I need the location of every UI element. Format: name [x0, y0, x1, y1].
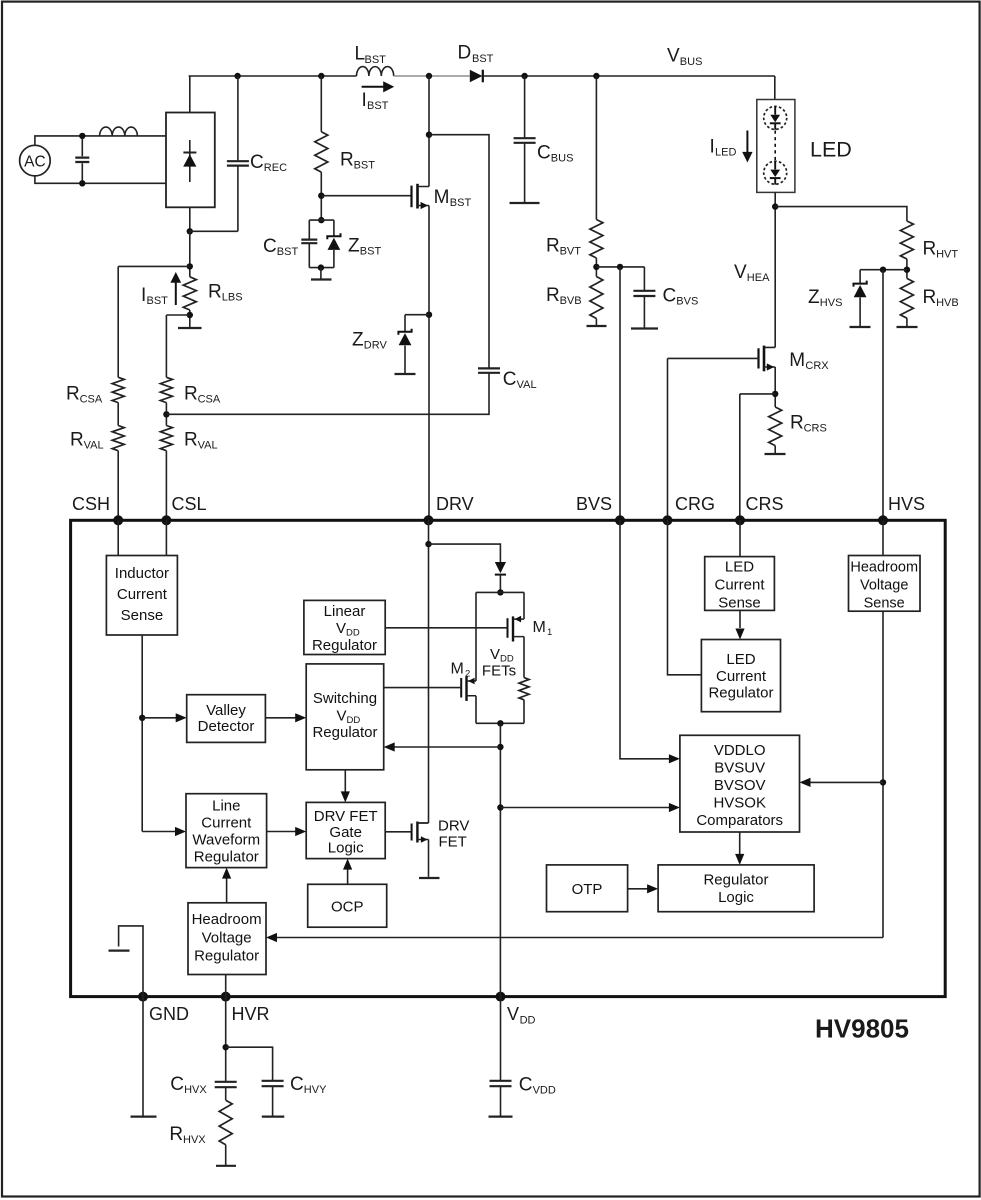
svg-text:LED: LED: [715, 147, 736, 159]
svg-text:C: C: [170, 1074, 184, 1095]
wire CSH pin to sense box: [117, 520, 119, 555]
svg-text:HVS: HVS: [820, 297, 843, 309]
arrowhead I_BST up: [170, 272, 181, 283]
block Headroom Voltage Sense: [849, 556, 921, 612]
svg-text:VDD: VDD: [533, 1084, 556, 1096]
capacitor C_VDD: [490, 1081, 512, 1086]
junction HVS comparator tap: [880, 779, 886, 785]
svg-text:BUS: BUS: [680, 56, 703, 68]
svg-text:M: M: [789, 350, 805, 371]
wire gate to M_BST: [321, 195, 411, 197]
pin BVS: [615, 515, 625, 525]
svg-text:R: R: [546, 285, 560, 306]
svg-text:D: D: [458, 43, 472, 64]
svg-text:R: R: [923, 287, 937, 308]
svg-text:V: V: [336, 708, 346, 725]
ground below Z_DRV: [395, 373, 416, 375]
wire HVR to C_HVY: [226, 1047, 273, 1080]
arrowhead into Valley Detector: [176, 713, 187, 722]
svg-text:OTP: OTP: [572, 881, 603, 898]
wire CRG to LED regulator: [668, 520, 702, 675]
junction sense tap: [139, 715, 145, 721]
IC body HV9805: [71, 520, 946, 996]
svg-text:Switching: Switching: [313, 690, 377, 707]
arrowhead OCP into Gate Logic: [343, 859, 352, 870]
svg-text:Logic: Logic: [718, 889, 754, 906]
LED module box: [757, 100, 795, 193]
svg-text:HVR: HVR: [232, 1004, 270, 1024]
svg-text:V: V: [667, 46, 680, 67]
svg-text:VAL: VAL: [84, 440, 104, 452]
ground internal: [109, 949, 130, 951]
wire R_HVX ground stem: [225, 1145, 227, 1166]
svg-text:Regulator: Regulator: [194, 849, 259, 866]
svg-text:C: C: [519, 1074, 533, 1095]
svg-text:HVY: HVY: [304, 1084, 327, 1096]
wire VDD line: [499, 723, 501, 996]
wire cell ground stem: [320, 268, 322, 280]
svg-text:Current: Current: [714, 577, 765, 594]
ground DRV FET source: [419, 877, 440, 879]
svg-text:HVT: HVT: [936, 249, 958, 261]
pin HVS: [878, 515, 888, 525]
diode internal triangle: [495, 562, 506, 573]
LED D2: [764, 161, 787, 184]
junction source / Z_DRV: [426, 312, 432, 318]
block LED Current Regulator: [701, 640, 780, 712]
svg-text:LED: LED: [810, 138, 852, 162]
wire switching to gate logic: [344, 770, 346, 792]
svg-text:BVS: BVS: [576, 494, 612, 514]
wire Z_DRV leads: [404, 315, 406, 374]
svg-text:Sense: Sense: [718, 595, 761, 612]
svg-text:Headroom: Headroom: [850, 560, 918, 576]
zener Z_DRV: [398, 329, 411, 335]
wire C_BVS leads: [643, 267, 645, 329]
arrowhead into Switching Regulator: [295, 713, 306, 722]
block Line Current Waveform Regulator: [186, 794, 267, 868]
wire M2 gate: [384, 687, 462, 689]
svg-text:VAL: VAL: [198, 440, 218, 452]
svg-text:CRG: CRG: [675, 494, 715, 514]
ground below C_VDD: [489, 1115, 513, 1117]
junction rail R_BVT: [593, 73, 599, 79]
svg-text:Waveform: Waveform: [192, 832, 260, 849]
block Regulator Logic: [658, 865, 814, 912]
ground below GND pin: [131, 1115, 157, 1117]
wire VDD pin down: [500, 997, 502, 1081]
resistor VDD FETs bleed: [519, 678, 529, 700]
junction filter top: [79, 133, 85, 139]
wire C_VDD ground stem: [500, 1086, 502, 1116]
wire CSH chain top: [118, 265, 190, 267]
inductor L_BST: [357, 67, 394, 76]
inductor input filter: [100, 127, 138, 136]
wire C_VAL bottom path: [166, 373, 489, 415]
arrowhead into Regulator Logic: [735, 854, 744, 865]
capacitor C_BST: [301, 240, 317, 244]
block Headroom Voltage Regulator: [188, 903, 266, 975]
svg-text:FET: FET: [439, 834, 467, 851]
svg-text:BVSUV: BVSUV: [714, 760, 765, 777]
wire M1 drain down: [523, 637, 525, 678]
wire FET cell left top: [475, 592, 477, 681]
wire HVS to comparators: [810, 781, 883, 783]
resistor R_VAL left: [112, 426, 124, 451]
svg-text:C: C: [290, 1074, 304, 1095]
arrowhead into Headroom Regulator: [266, 933, 277, 942]
pin DRV: [424, 515, 434, 525]
svg-text:C: C: [250, 152, 264, 173]
wire CSL chain v2: [165, 403, 167, 426]
wire C_REC bottom lead: [237, 165, 239, 231]
wire C_BST cell top rail: [309, 219, 334, 221]
wire junction to Z_HVS: [860, 269, 907, 271]
svg-text:BST: BST: [365, 54, 387, 66]
wire drain to C_VAL: [429, 135, 489, 368]
wire AC bottom: [35, 176, 166, 183]
junction HVS tap: [880, 267, 886, 273]
svg-text:CSL: CSL: [172, 494, 207, 514]
arrowhead headroom into Line Regulator: [222, 868, 231, 879]
svg-text:V: V: [734, 262, 747, 283]
junction VDD comparator tap: [497, 804, 503, 810]
wire bottom to C_REC: [190, 230, 238, 232]
arrowhead VDDLO input: [669, 803, 680, 812]
ground below R_BVB: [587, 325, 607, 327]
svg-text:OCP: OCP: [331, 899, 364, 916]
svg-text:BST: BST: [360, 246, 382, 258]
svg-text:R: R: [208, 282, 222, 303]
svg-text:V: V: [490, 646, 500, 663]
capacitor C_HVX: [215, 1082, 237, 1087]
svg-text:Voltage: Voltage: [860, 578, 908, 594]
svg-text:REC: REC: [264, 162, 287, 174]
pin HVR: [221, 992, 231, 1002]
resistor R_BST: [315, 132, 328, 172]
resistor R_HVB: [900, 278, 913, 318]
AC source: [20, 145, 51, 176]
arrowhead OTP input: [647, 884, 658, 893]
block OTP: [547, 865, 628, 912]
pin CRS: [735, 515, 745, 525]
svg-text:DRV: DRV: [436, 494, 474, 514]
wire BVS line down: [620, 520, 669, 759]
wire bridge diode stem: [189, 140, 191, 182]
ground below R_CRS: [765, 453, 786, 455]
wire bleed to bottom rail: [523, 700, 525, 724]
wire C_HVY ground stem: [272, 1086, 274, 1116]
arrowhead gate logic input: [295, 827, 306, 836]
svg-text:Headroom: Headroom: [192, 911, 262, 928]
svg-text:BST: BST: [277, 246, 299, 258]
wire R_BVT top lead: [595, 76, 597, 220]
wire M_BST drain: [428, 76, 430, 187]
diode D_BST cathode bar: [482, 70, 484, 83]
junction source/R_CRS: [772, 391, 778, 397]
svg-text:I: I: [362, 90, 367, 111]
svg-text:CSH: CSH: [72, 494, 110, 514]
wire R_CRS ground stem: [774, 446, 776, 454]
pin CSL: [161, 515, 171, 525]
junction BVT/BVB: [593, 264, 599, 270]
svg-text:AC: AC: [24, 154, 46, 171]
svg-text:V: V: [336, 620, 346, 637]
svg-text:R: R: [184, 430, 198, 451]
wire R_LBS top lead: [189, 231, 191, 276]
zener Z_HVS: [854, 281, 867, 287]
block Linear VDD Regulator: [304, 600, 385, 654]
wire C_BUS leads: [524, 76, 526, 203]
wire to Z_DRV: [405, 314, 429, 316]
svg-text:HVB: HVB: [936, 297, 959, 309]
svg-text:Current: Current: [716, 668, 767, 685]
wire M_CRX gate: [668, 357, 759, 359]
svg-text:CRS: CRS: [746, 494, 784, 514]
wire internal ground step: [119, 926, 143, 997]
LED D1: [764, 106, 787, 129]
resistor R_BVT: [590, 220, 603, 259]
svg-text:R: R: [70, 430, 84, 451]
svg-text:LED: LED: [726, 651, 755, 668]
svg-text:Z: Z: [348, 236, 360, 257]
svg-text:Linear: Linear: [324, 603, 366, 620]
arrowhead HVSOK input: [800, 778, 811, 787]
svg-text:I: I: [141, 285, 146, 306]
junction FET cell top: [497, 589, 503, 595]
arrowhead into Switching right: [384, 742, 395, 751]
block VDDLO BVSUV BVSOV HVSOK Comparators: [680, 735, 800, 832]
wire FET cell left bottom: [475, 696, 477, 724]
ground below C_HVY: [262, 1115, 285, 1117]
wire Z_HVS leads: [859, 270, 861, 327]
wire CSH chain v3: [117, 451, 119, 521]
wire CRS to LED sense: [739, 520, 741, 556]
zener Z_BST: [327, 233, 340, 239]
pin CSH: [113, 515, 123, 525]
wire rail grey segment: [394, 75, 470, 77]
svg-text:Inductor: Inductor: [115, 565, 169, 582]
junction HVT/HVB: [904, 267, 910, 273]
bridge rectifier: [166, 113, 215, 208]
wire bridge top stem: [189, 76, 191, 113]
wire rail to LED: [774, 76, 776, 100]
wire CSL pin to sense box: [165, 520, 167, 555]
svg-text:DRV FET: DRV FET: [314, 808, 378, 825]
wire headroom reg up: [226, 878, 228, 903]
svg-text:L: L: [355, 44, 366, 65]
wire to line regulator: [142, 831, 176, 833]
svg-text:Z: Z: [352, 330, 364, 351]
resistor R_CSA left: [112, 377, 124, 402]
wire R_BVB ground stem: [595, 319, 597, 327]
svg-text:Z: Z: [808, 287, 820, 308]
wire sense to regulator: [739, 610, 741, 628]
capacitor C_HVY: [262, 1081, 284, 1086]
wire source to CRS: [740, 393, 775, 395]
svg-text:BVB: BVB: [560, 295, 582, 307]
resistor R_BVB: [590, 277, 603, 319]
transistor M2: [460, 678, 462, 698]
svg-text:Logic: Logic: [328, 840, 364, 857]
junction C_BST top: [318, 217, 324, 223]
svg-text:VDDLO: VDDLO: [714, 742, 766, 759]
svg-text:1: 1: [547, 627, 552, 638]
svg-text:R: R: [340, 150, 354, 171]
dashed LED string: [774, 131, 776, 161]
wire valley to switching: [265, 717, 296, 719]
junction rail M_BST: [426, 73, 432, 79]
wire Z_BST leads: [333, 220, 335, 268]
svg-text:M: M: [434, 187, 450, 208]
ground below R_LBS: [178, 327, 202, 329]
svg-text:Line: Line: [212, 798, 240, 815]
arrowhead into LED Current Regulator: [735, 629, 744, 640]
svg-text:Regulator: Regulator: [708, 685, 773, 702]
svg-text:HVSOK: HVSOK: [713, 795, 766, 812]
arrowhead into Line Current Waveform Regulator: [175, 827, 186, 836]
arrowhead BVSUV input: [669, 754, 680, 763]
junction FET cell bottom: [497, 720, 503, 726]
wire HVS sense line: [882, 270, 884, 521]
diode D_BST triangle: [470, 70, 483, 83]
svg-text:R: R: [923, 239, 937, 260]
svg-text:GND: GND: [149, 1004, 189, 1024]
wire C_HVX to R_HVX: [225, 1087, 227, 1100]
ground below R_HVB: [897, 326, 918, 328]
svg-text:Sense: Sense: [864, 596, 905, 612]
wire junction to C_BVS: [596, 266, 644, 268]
junction DRV branch: [425, 541, 431, 547]
resistor R_VAL right: [160, 426, 172, 451]
svg-text:LED: LED: [725, 559, 754, 576]
wire R_BST bottom lead: [320, 172, 322, 220]
wire HVS sense down: [882, 611, 884, 937]
junction VDD switching tap: [497, 744, 503, 750]
wire M_CRX source: [774, 367, 776, 407]
svg-text:R: R: [790, 413, 804, 434]
wire headroom reg to HVR pin: [225, 975, 227, 997]
svg-text:CSA: CSA: [80, 394, 103, 406]
transistor M_CRX: [757, 348, 759, 368]
svg-text:V: V: [507, 1004, 519, 1024]
svg-text:CSA: CSA: [198, 394, 221, 406]
svg-text:I: I: [710, 137, 715, 158]
svg-text:FETs: FETs: [482, 663, 516, 680]
pin CRG: [663, 515, 673, 525]
capacitor C_BUS: [514, 138, 536, 143]
arrowhead I_BST: [383, 81, 394, 92]
wire OCP up: [347, 869, 349, 884]
svg-text:BUS: BUS: [551, 153, 574, 165]
wire CRG line: [667, 358, 669, 520]
svg-text:BVSOV: BVSOV: [714, 777, 766, 794]
wire C_REC top lead: [237, 76, 239, 160]
wire M_BST source to DRV: [428, 206, 430, 521]
svg-text:BST: BST: [354, 160, 376, 172]
wire gate logic to DRV FET: [385, 831, 411, 833]
wire R_BST top lead: [320, 76, 322, 132]
wire CSL chain top: [166, 314, 189, 316]
junction V_HEA node: [772, 203, 778, 209]
wire C_BST cell bottom rail: [309, 267, 334, 269]
svg-text:BVT: BVT: [560, 246, 582, 258]
svg-text:Valley: Valley: [206, 702, 246, 719]
wire to valley detector: [142, 717, 176, 719]
arrow I_LED down: [746, 131, 748, 153]
resistor R_HVX: [219, 1100, 232, 1145]
wire FET cell top rail: [476, 591, 524, 593]
wire CSH chain v1: [117, 266, 119, 377]
wire R_LBS bottom lead: [189, 310, 191, 328]
junction drain / C_VAL: [426, 132, 432, 138]
ground below C_BUS: [510, 202, 540, 204]
svg-text:BST: BST: [472, 53, 494, 65]
block OCP: [308, 884, 387, 927]
resistor R_HVT: [900, 221, 913, 259]
wire CRS line: [739, 394, 741, 520]
svg-text:BST: BST: [450, 197, 472, 209]
junction filter bottom: [79, 180, 85, 186]
svg-text:M: M: [533, 619, 546, 636]
wire FET cell right top: [523, 592, 525, 619]
svg-text:HVX: HVX: [184, 1084, 207, 1096]
svg-text:Detector: Detector: [198, 718, 255, 735]
wire BVS sense line: [619, 267, 621, 520]
svg-text:CRX: CRX: [805, 360, 829, 372]
block Switching VDD Regulator: [306, 664, 384, 770]
ground below Z_HVS: [850, 326, 871, 328]
svg-text:R: R: [66, 384, 80, 405]
block LED Current Sense: [705, 557, 775, 611]
svg-text:C: C: [537, 143, 551, 164]
junction rail C_REC: [234, 73, 240, 79]
block Inductor Current Sense: [106, 556, 177, 636]
ground below R_HVX: [216, 1165, 236, 1167]
transistor M1: [507, 618, 509, 638]
wire C_BST leads: [308, 220, 310, 268]
wire sense box down: [141, 635, 143, 832]
svg-text:Regulator: Regulator: [194, 948, 259, 965]
svg-text:HVS: HVS: [888, 494, 925, 514]
svg-text:Comparators: Comparators: [696, 812, 783, 829]
wire DRV FET drain bend: [417, 822, 428, 824]
arrowhead I_LED: [742, 152, 752, 163]
bridge diode cathode bar: [183, 152, 196, 154]
wire R_HVT bottom lead: [906, 259, 908, 278]
wire line reg to gate logic: [267, 831, 296, 833]
wire V_BUS rail right: [483, 75, 775, 77]
svg-text:C: C: [663, 286, 677, 307]
wire R_HVB ground stem: [906, 318, 908, 327]
svg-text:C: C: [503, 369, 517, 390]
svg-text:BST: BST: [367, 100, 389, 112]
arrow I_BST right: [362, 86, 384, 88]
junction CSL / C_VAL: [163, 411, 169, 417]
junction BVS tap: [617, 264, 623, 270]
wire GND pin to ground: [142, 997, 144, 1117]
capacitor C_REC: [227, 161, 249, 165]
svg-text:DRV: DRV: [438, 818, 469, 835]
svg-text:BVS: BVS: [676, 296, 698, 308]
wire HVS pin to sense box: [882, 520, 884, 555]
wire DRV to diode: [429, 544, 501, 562]
wire HVR pin down: [225, 997, 227, 1082]
capacitor input filter: [75, 158, 89, 162]
block DRV FET Gate Logic: [306, 802, 385, 858]
block Valley Detector: [187, 695, 266, 743]
wire LED cathode down: [774, 192, 776, 347]
